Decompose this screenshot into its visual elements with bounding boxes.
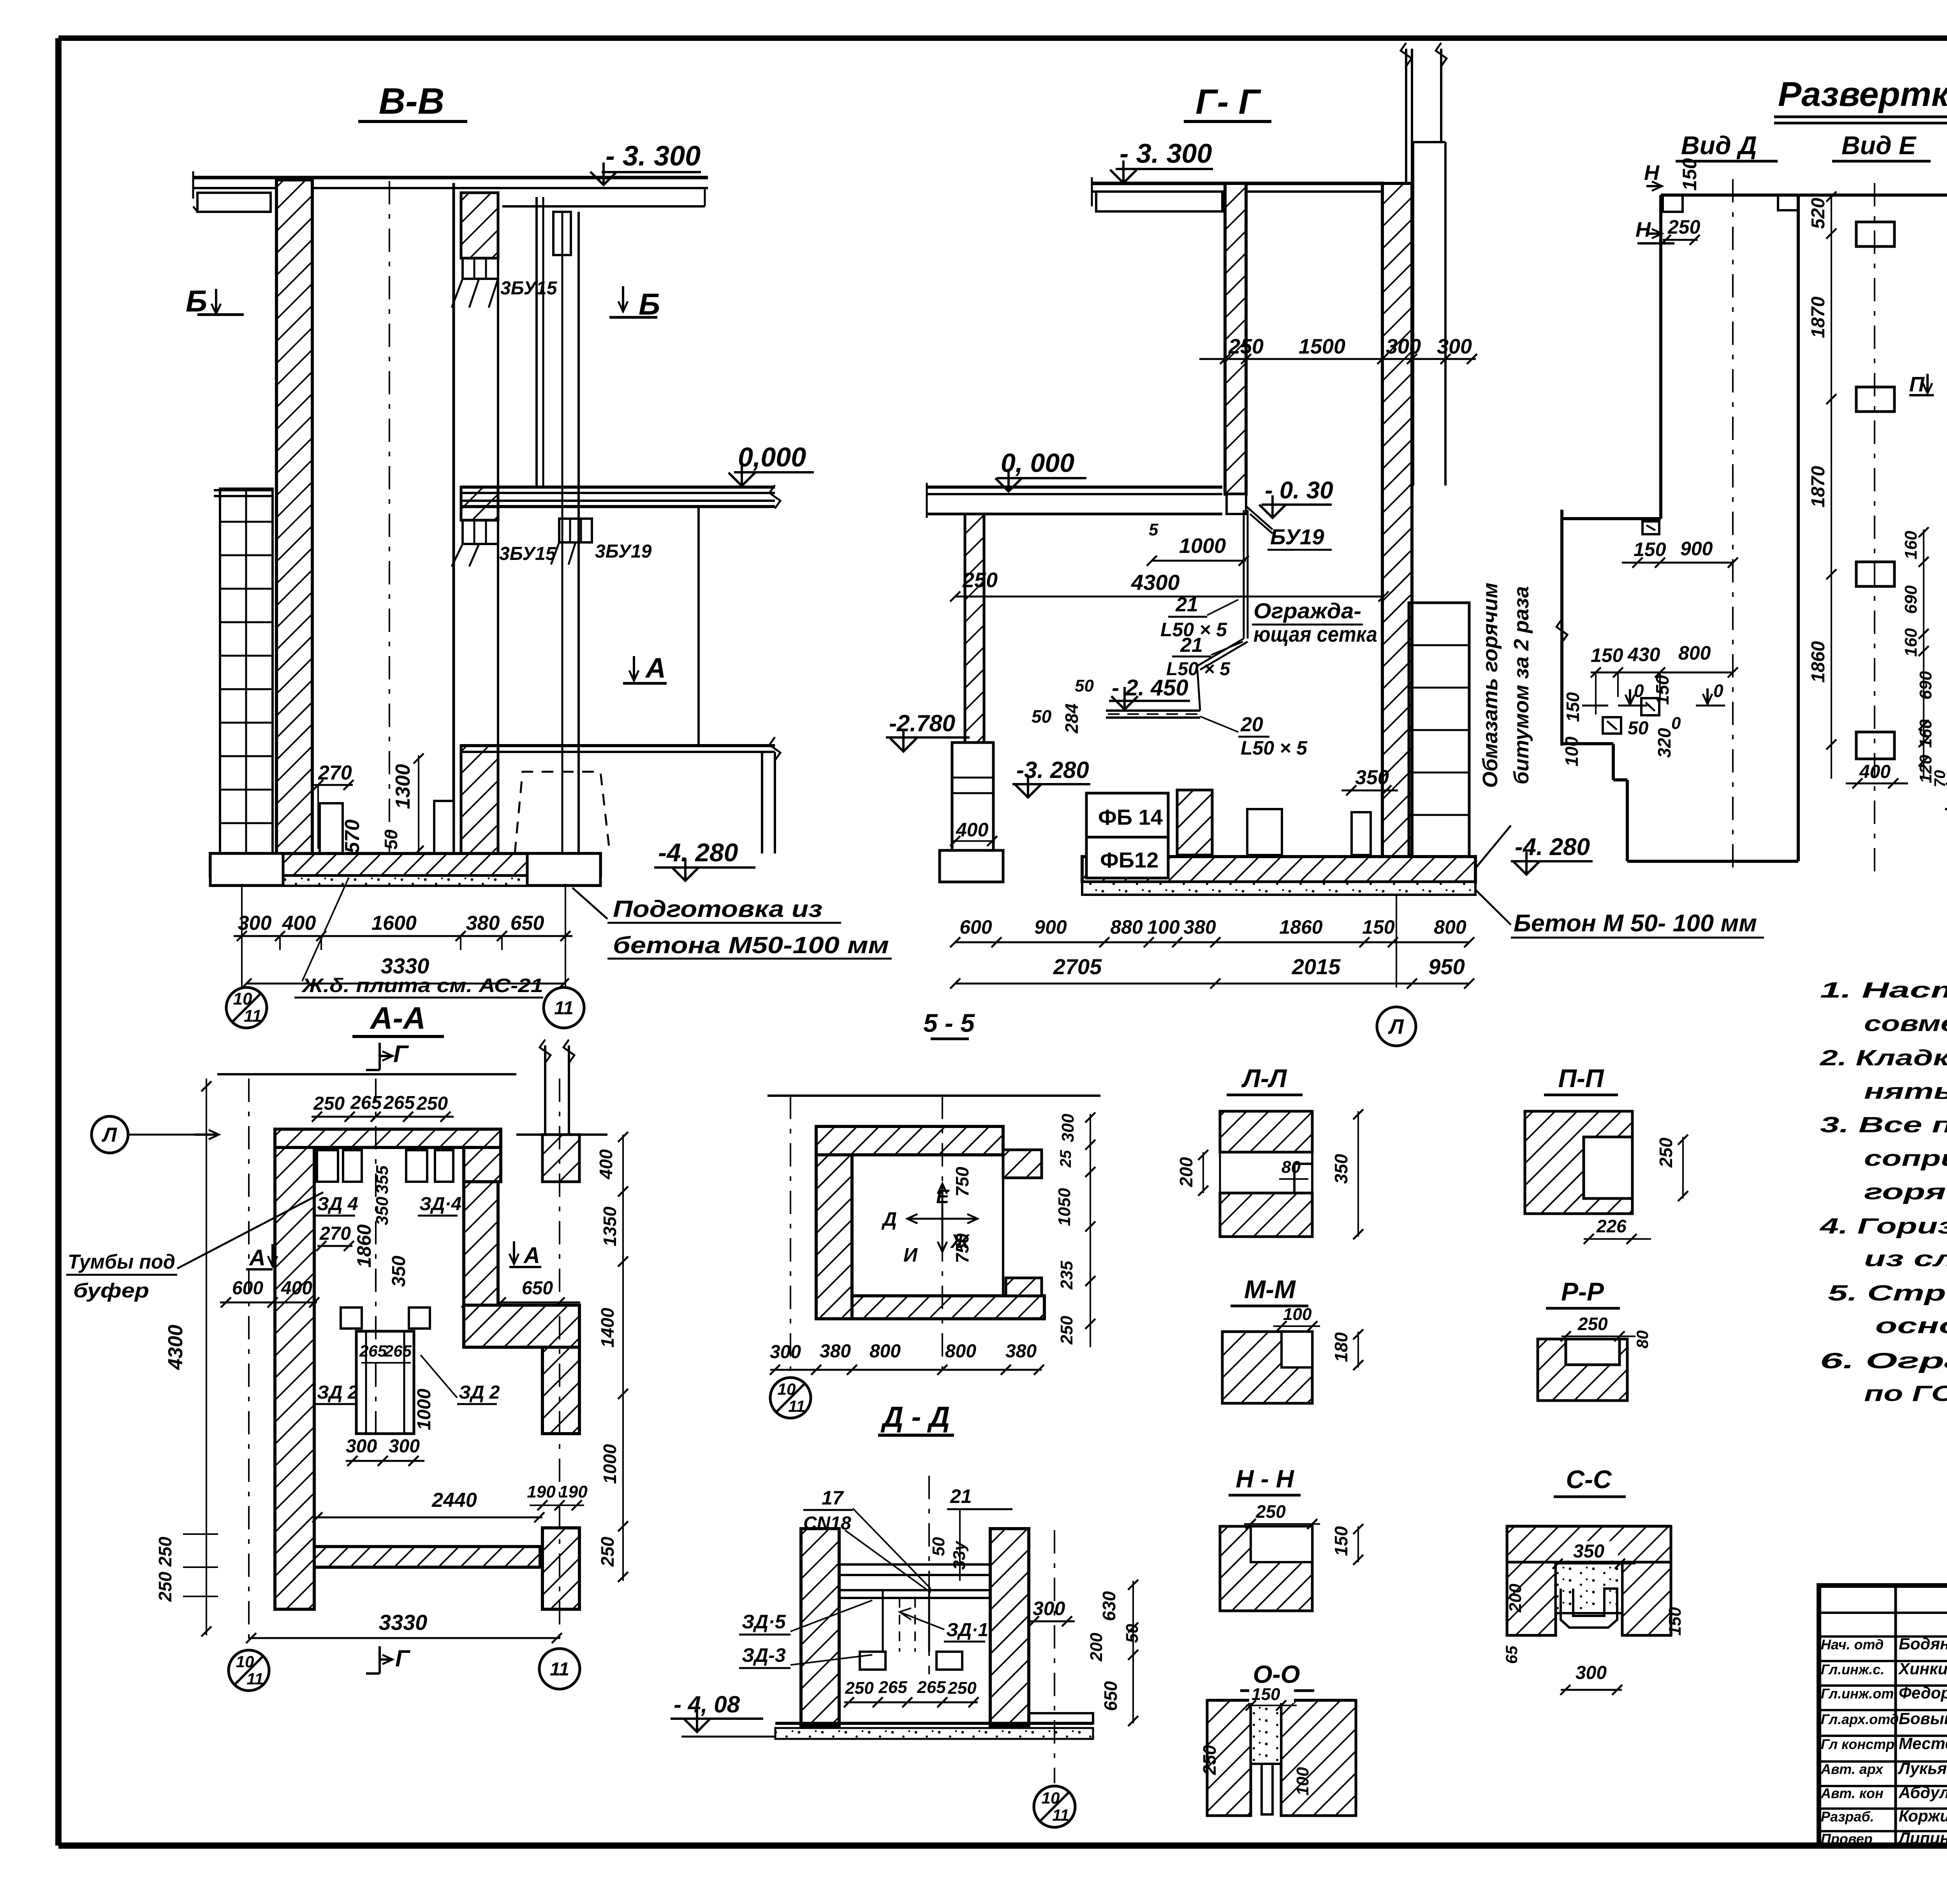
svg-text:0, 000: 0, 000 (1001, 448, 1074, 478)
svg-text:250: 250 (962, 568, 998, 592)
label ograzhdayushchaya setka (G-G) (1252, 598, 1377, 646)
plan A-A top-right wall fragment (516, 1040, 607, 1182)
svg-text:690: 690 (1916, 671, 1935, 700)
detail R-R block (1538, 1339, 1627, 1401)
svg-text:ЗД·5: ЗД·5 (742, 1611, 786, 1633)
svg-text:ЗД 2: ЗД 2 (317, 1382, 358, 1403)
dim 400 (G-G) (950, 819, 997, 846)
svg-text:265: 265 (383, 1093, 415, 1113)
plan A-A dim 2440 (312, 1489, 544, 1522)
svg-text:250: 250 (845, 1679, 874, 1698)
svg-text:1000: 1000 (414, 1388, 435, 1430)
svg-text:Хинкис: Хинкис (1898, 1659, 1947, 1678)
svg-text:380: 380 (1005, 1341, 1037, 1362)
plan A-A dims 600 400 (220, 1278, 319, 1307)
dim 1000 (G-G) (1147, 520, 1249, 566)
vid D mark N upper (1644, 161, 1662, 191)
vid D level tick 0 left (1618, 681, 1647, 706)
detail title L-L (1227, 1064, 1303, 1095)
svg-text:33у: 33у (950, 1540, 969, 1570)
section title 5-5 (923, 1008, 975, 1039)
svg-text:150: 150 (1679, 158, 1701, 191)
svg-text:160: 160 (1901, 628, 1921, 657)
svg-text:4300: 4300 (1131, 570, 1180, 595)
svg-text:Авт. кон: Авт. кон (1820, 1785, 1884, 1801)
svg-text:0: 0 (1671, 714, 1681, 733)
vid D centerline (1732, 179, 1734, 874)
svg-text:150: 150 (1331, 1526, 1351, 1556)
dim 3330 (B-B) (241, 954, 569, 989)
vid D dim line left (1582, 689, 1608, 714)
svg-text:11: 11 (788, 1397, 805, 1415)
plan A-A dims 380 650 (461, 1278, 580, 1307)
svg-text:300: 300 (1033, 1598, 1065, 1619)
svg-text:5: 5 (1149, 520, 1158, 539)
svg-text:265: 265 (384, 1342, 412, 1360)
svg-text:300: 300 (389, 1436, 420, 1457)
note zh.b. plita (B-B) (294, 878, 543, 998)
svg-text:300: 300 (770, 1342, 801, 1362)
svg-text:80: 80 (1633, 1330, 1651, 1349)
svg-text:250: 250 (1228, 335, 1264, 358)
vid E niche 1 (1856, 222, 1894, 246)
svg-text:1860: 1860 (1808, 641, 1829, 683)
svg-text:из слоя цементного раствора: из слоя цементного раствора состава 1: 2… (1864, 1246, 1947, 1271)
vid D level tick 0 right (1696, 681, 1725, 706)
svg-text:М-М: М-М (1244, 1275, 1296, 1304)
plan A-A right dim chain rotated (596, 1132, 628, 1582)
svg-text:265: 265 (917, 1678, 946, 1697)
foundation block FB14 (G-G) (1086, 793, 1168, 837)
detail D-D pad left (860, 1652, 885, 1670)
plan A-A dim 4300 rotated (164, 1079, 211, 1637)
plan A-A top wall (275, 1129, 501, 1147)
svg-text:Бовыкина: Бовыкина (1899, 1709, 1947, 1728)
svg-text:5. Строительная часть разра: 5. Строительная часть разработана на (1828, 1281, 1947, 1306)
svg-text:ющая сетка: ющая сетка (1253, 622, 1377, 646)
svg-text:- 3. 300: - 3. 300 (606, 141, 701, 172)
svg-text:284: 284 (1062, 704, 1082, 734)
svg-text:соприкасающиеся с грунтом, о: соприкасающиеся с грунтом, обмазать (1864, 1146, 1947, 1171)
svg-text:300: 300 (1058, 1114, 1077, 1142)
dim row bottom 1 (G-G) (950, 916, 1474, 947)
svg-text:БУ19: БУ19 (1270, 524, 1324, 549)
detail D-D left wall (801, 1529, 839, 1726)
grid bubble L (G-G) (1377, 895, 1416, 1046)
svg-text:350: 350 (1355, 766, 1389, 789)
svg-text:350: 350 (389, 1256, 409, 1287)
plan 5-5 dims 750 750 rotated (952, 1167, 972, 1263)
svg-text:битумом за 2 раза: битумом за 2 раза (1510, 586, 1533, 784)
vid D top-left notch (1663, 195, 1683, 212)
svg-text:С-С: С-С (1566, 1465, 1612, 1494)
top floor slab (B-B) (193, 171, 708, 212)
svg-text:-4. 280: -4. 280 (658, 838, 738, 867)
svg-text:160: 160 (1916, 719, 1935, 748)
svg-text:430: 430 (1627, 644, 1660, 665)
svg-text:А: А (645, 653, 666, 684)
left brick column (B-B) (214, 489, 273, 853)
detail C-C dim 300 (1560, 1663, 1622, 1695)
right wall hatched mid (B-B) (461, 487, 498, 520)
left column below (G-G) (940, 743, 1003, 882)
label 21 L50x5 first (G-G) (1160, 593, 1238, 641)
svg-text:20: 20 (1240, 713, 1263, 736)
detail D-D grid bubble 10/11 (1034, 1786, 1075, 1827)
svg-text:150: 150 (1665, 1607, 1685, 1636)
vid E centerline (1874, 183, 1875, 872)
pit pedestal 2 (G-G) (1352, 812, 1371, 855)
svg-text:О-О: О-О (1253, 1660, 1300, 1688)
svg-text:800: 800 (1678, 642, 1711, 664)
svg-text:Н: Н (1644, 161, 1660, 185)
plan A-A niche top 1 (317, 1150, 338, 1182)
svg-text:Бодянский: Бодянский (1899, 1635, 1947, 1653)
svg-text:Гл.инж.от.: Гл.инж.от. (1821, 1686, 1898, 1702)
svg-text:250: 250 (1577, 1314, 1608, 1334)
right wall below lower slab (B-B) (762, 752, 775, 853)
svg-text:2440: 2440 (431, 1489, 477, 1512)
svg-text:Л: Л (101, 1124, 117, 1146)
svg-text:Разраб.: Разраб. (1821, 1809, 1874, 1825)
svg-text:300: 300 (1576, 1663, 1607, 1683)
detail P-P dim 250 rotated (1656, 1135, 1688, 1201)
svg-text:Обмазать горячим: Обмазать горячим (1479, 582, 1502, 788)
svg-text:200: 200 (1087, 1633, 1106, 1662)
svg-text:1000: 1000 (600, 1444, 620, 1484)
detail P-P block (1525, 1111, 1632, 1214)
lower floor slab (B-B) (461, 737, 780, 760)
detail C-C channel (1561, 1589, 1617, 1628)
plan A-A niche top 3 (406, 1150, 427, 1182)
svg-text:6. Ограждающая сетка принят: 6. Ограждающая сетка принята тканая (1820, 1348, 1947, 1373)
svg-text:3. Все поверхности кирпичны: 3. Все поверхности кирпичных стен приямк… (1820, 1112, 1947, 1137)
label 20 L50x5 (G-G) (1200, 713, 1308, 759)
svg-text:250: 250 (1656, 1137, 1676, 1168)
svg-text:И: И (903, 1244, 918, 1266)
svg-text:21: 21 (1175, 593, 1198, 616)
svg-text:Огражда-: Огражда- (1253, 598, 1361, 623)
plan A-A dims 300 300 (346, 1436, 424, 1466)
svg-text:11: 11 (244, 1007, 262, 1026)
plan 5-5 grid bubble 10/11 (770, 1378, 811, 1418)
right wall hatched bottom (B-B) (461, 746, 498, 855)
vid E left dim chain (1808, 192, 1836, 779)
svg-text:Вид Д: Вид Д (1681, 131, 1757, 160)
svg-text:А: А (248, 1245, 266, 1271)
detail title P-P (1544, 1064, 1618, 1095)
plan 5-5 inner outline (852, 1155, 1003, 1296)
svg-text:100: 100 (1147, 916, 1180, 938)
level mark 0,000 (B-B) (729, 442, 814, 486)
svg-text:50: 50 (1032, 706, 1052, 727)
detail L-L step lines (1220, 1111, 1312, 1237)
svg-text:150: 150 (1591, 644, 1623, 666)
svg-text:800: 800 (1434, 916, 1466, 938)
svg-text:300: 300 (1437, 335, 1472, 358)
svg-text:1400: 1400 (597, 1307, 618, 1348)
svg-text:380: 380 (1183, 916, 1216, 938)
plan 5-5 top wall (816, 1126, 1003, 1155)
svg-text:Д: Д (881, 1208, 897, 1230)
plan A-A dims 250 265 265 250 (312, 1093, 454, 1122)
svg-text:250: 250 (597, 1536, 618, 1567)
svg-text:ЗД 4: ЗД 4 (317, 1194, 358, 1214)
left wall below floor (G-G) (965, 514, 984, 743)
detail D-D right dim chain (1087, 1580, 1142, 1726)
level mark -2.450 (G-G) (1109, 675, 1190, 709)
dim 270 (B-B) (313, 762, 354, 849)
plan 5-5 right dim chain (1055, 1112, 1095, 1347)
svg-text:950: 950 (1428, 954, 1465, 979)
top floor slab (G-G) (1092, 177, 1384, 211)
svg-text:Бетон М 50- 100 мм: Бетон М 50- 100 мм (1514, 910, 1757, 937)
signature rows text (1820, 1635, 1947, 1847)
svg-text:150: 150 (1634, 538, 1666, 560)
svg-text:900: 900 (1034, 916, 1067, 938)
svg-text:буфер: буфер (73, 1279, 149, 1302)
detail title C-C (1554, 1465, 1626, 1497)
detail D-D level -4.08 (671, 1691, 775, 1737)
svg-text:Н - Н: Н - Н (1236, 1465, 1294, 1493)
pit buffer pedestal 1 (B-B) (320, 803, 343, 853)
svg-text:1350: 1350 (600, 1206, 620, 1246)
vid D dim 150 430 800 (1591, 642, 1738, 701)
subtitle vid D (1676, 131, 1778, 161)
svg-text:- 4, 08: - 4, 08 (674, 1691, 740, 1717)
detail D-D centerline (928, 1476, 930, 1674)
svg-text:65: 65 (1502, 1645, 1521, 1664)
level mark -0.30 (G-G) (1259, 477, 1333, 518)
plan A-A buffer pad 2 (409, 1307, 430, 1329)
plan A-A grid bubble L (92, 1116, 219, 1153)
plan A-A grid line 10/11 (248, 1079, 250, 1644)
plan 5-5 top right block (1003, 1150, 1042, 1178)
plan A-A grid line 11 (559, 1079, 560, 1642)
detail M-M block (1222, 1332, 1312, 1403)
level mark -4.280 (B-B) (654, 838, 755, 881)
svg-text:Л: Л (1387, 1015, 1404, 1038)
svg-text:1870: 1870 (1808, 296, 1829, 338)
detail O-O block (1207, 1700, 1356, 1816)
svg-text:150: 150 (1652, 675, 1672, 705)
svg-text:400: 400 (281, 1278, 312, 1299)
svg-text:900: 900 (1680, 538, 1713, 560)
plan A-A bottom right wall (542, 1528, 579, 1609)
svg-text:226: 226 (1596, 1216, 1627, 1236)
vid D dim 250 (1661, 216, 1701, 245)
svg-text:по ГОСТ 12184- 66 * N12-1.: по ГОСТ 12184- 66 * N12-1. 2 площадь- 3,… (1864, 1381, 1947, 1406)
svg-text:250: 250 (947, 1679, 977, 1698)
protective mesh (G-G) (1196, 510, 1248, 670)
svg-text:11: 11 (554, 998, 574, 1019)
detail D-D label ZD-5 (739, 1600, 872, 1635)
svg-text:750: 750 (952, 1233, 972, 1263)
title block signature table (1819, 1585, 1947, 1846)
detail M-M dim 100 (1273, 1305, 1320, 1331)
section title A-A (352, 1001, 444, 1036)
svg-text:Лукьянов: Лукьянов (1898, 1759, 1947, 1777)
dim 4300 (G-G) (950, 570, 1389, 602)
vid D dim 150 900 (1622, 538, 1738, 568)
svg-text:ЗД·1: ЗД·1 (946, 1620, 988, 1640)
foundation block FB12 (G-G) (1086, 837, 1168, 878)
plan 5-5 centerline (942, 1096, 943, 1370)
detail title R-R (1546, 1277, 1620, 1308)
section title B-B (358, 81, 467, 122)
svg-text:совместно с листом АС-21.: совместно с листом АС-21. (1864, 1011, 1947, 1036)
svg-text:355: 355 (373, 1165, 392, 1194)
svg-text:10: 10 (236, 1652, 254, 1671)
svg-text:400: 400 (596, 1149, 616, 1179)
svg-text:1870: 1870 (1808, 466, 1829, 507)
label BU19 (G-G) (1267, 524, 1332, 550)
detail title N-N (1229, 1465, 1301, 1495)
svg-text:Местецкий: Местецкий (1899, 1734, 1947, 1753)
chimney walls above slab (G-G) (1401, 43, 1447, 183)
level mark -2.780 (G-G) (886, 710, 970, 751)
plan A-A left wall (275, 1147, 314, 1609)
svg-text:400: 400 (1859, 762, 1891, 782)
svg-text:600: 600 (959, 916, 992, 938)
detail D-D label 17 CN18 (803, 1487, 931, 1593)
right niche verticals (B-B) (537, 197, 579, 855)
detail C-C block (1507, 1526, 1671, 1635)
svg-text:- 2. 450: - 2. 450 (1112, 675, 1188, 700)
svg-text:2705: 2705 (1053, 954, 1102, 979)
note tumby pod bufer (66, 1192, 323, 1302)
svg-text:380: 380 (466, 912, 500, 934)
vid E mark P (1909, 373, 1934, 396)
vid D anchor square top (1642, 521, 1659, 534)
svg-text:Авт. арх: Авт. арх (1820, 1761, 1884, 1777)
detail M-M dim 180 rotated (1331, 1329, 1363, 1370)
svg-text:Л-Л: Л-Л (1241, 1064, 1287, 1093)
svg-text:А: А (523, 1243, 540, 1268)
right brick column (G-G) (1409, 603, 1469, 857)
left shaft wall (G-G) (1225, 183, 1246, 494)
detail D-D dims 50 334 rotated (929, 1537, 969, 1570)
svg-text:100: 100 (1293, 1767, 1312, 1796)
detail N-N dim 250 (1244, 1501, 1320, 1529)
svg-text:Вид Е: Вид Е (1841, 131, 1917, 160)
svg-text:Липин: Липин (1898, 1829, 1947, 1847)
svg-text:250: 250 (1199, 1745, 1220, 1775)
plan 5-5 reference line (768, 1095, 1100, 1097)
svg-text:Провер: Провер (1821, 1831, 1873, 1847)
svg-text:50: 50 (1075, 676, 1094, 695)
svg-text:Тумбы под: Тумбы под (68, 1251, 175, 1273)
detail C-C dim 350 (1553, 1541, 1635, 1569)
heading razvertka shahty s nishami (1774, 75, 1947, 123)
svg-text:3330: 3330 (379, 1610, 428, 1635)
detail D-D dim 300 (1028, 1598, 1075, 1626)
detail D-D label ZD-1 (900, 1608, 988, 1642)
plan 5-5 grid line (790, 1096, 791, 1375)
svg-text:Г: Г (393, 1041, 409, 1068)
plan 5-5 direction arrows (881, 1184, 977, 1266)
plan A-A bottom wall (314, 1547, 540, 1567)
svg-text:350: 350 (1331, 1154, 1351, 1184)
floor slab 0.000 (G-G) (927, 483, 1222, 518)
svg-text:10: 10 (778, 1380, 796, 1398)
detail D-D floor (775, 1713, 1093, 1739)
mid floor slab 0.000 (B-B) (461, 485, 780, 509)
detail D-D label ZD-3 (739, 1644, 872, 1668)
svg-text:350: 350 (1573, 1541, 1604, 1562)
plan A-A labels ZD2 (315, 1355, 500, 1404)
svg-text:880: 880 (1110, 916, 1143, 938)
BU19 insert block (G-G) (1227, 494, 1273, 533)
svg-text:650: 650 (522, 1278, 553, 1299)
svg-text:265: 265 (878, 1678, 907, 1697)
level mark -3.280 (G-G) (1012, 757, 1090, 797)
svg-text:0: 0 (1713, 681, 1723, 701)
plan A-A dims 355 350 rotated (373, 1165, 392, 1225)
svg-text:2. Кладку кирпичных стен ш: 2. Кладку кирпичных стен шахты лифта вып… (1820, 1045, 1947, 1070)
svg-text:1860: 1860 (1279, 916, 1322, 938)
dim 50 284 50 (G-G) (1032, 676, 1094, 734)
vid E niche 3 (1856, 562, 1894, 586)
pit slab left block (B-B) (210, 853, 283, 885)
vid E outline (1798, 195, 1947, 861)
svg-text:5 - 5: 5 - 5 (923, 1008, 975, 1037)
vid E dim 400 (1846, 762, 1908, 788)
plan A-A right wall middle (464, 1305, 579, 1347)
svg-text:235: 235 (1057, 1261, 1076, 1290)
vid E niche 2 (1856, 387, 1894, 412)
svg-text:50: 50 (381, 829, 401, 850)
detail D-D grid line (1054, 1530, 1055, 1783)
svg-text:-2.780: -2.780 (889, 710, 955, 736)
svg-text:180: 180 (1331, 1332, 1351, 1362)
svg-text:250: 250 (155, 1571, 175, 1602)
right shaft wall (G-G) (1382, 183, 1412, 857)
svg-text:50: 50 (929, 1537, 948, 1556)
svg-text:Подготовка из: Подготовка из (613, 896, 822, 922)
lintel bracket 3BU15 lower (B-B) (452, 520, 498, 567)
svg-text:600: 600 (232, 1278, 263, 1299)
plan A-A dim 3330 (246, 1610, 562, 1643)
left shaft wall (B-B) (276, 180, 312, 855)
plan 5-5 bottom dims (770, 1341, 1044, 1375)
plan A-A mark G bottom (366, 1645, 411, 1673)
svg-text:150: 150 (1362, 916, 1395, 938)
svg-text:Федорченко: Федорченко (1899, 1684, 1947, 1702)
svg-text:основании АТ- 5. 401 - 71.: основании АТ- 5. 401 - 71. (1875, 1313, 1947, 1338)
svg-text:100: 100 (1561, 736, 1582, 766)
svg-text:1600: 1600 (371, 912, 417, 934)
level mark 0,000 (G-G) (995, 448, 1086, 491)
detail P-P dim 226 (1584, 1216, 1651, 1244)
detail D-D rails (839, 1564, 990, 1652)
svg-text:Н: Н (1635, 218, 1651, 241)
detail L-L upper block (1220, 1111, 1312, 1152)
svg-text:Абдулин: Абдулин (1898, 1783, 1947, 1802)
svg-text:ФБ12: ФБ12 (1100, 848, 1158, 872)
svg-text:520: 520 (1808, 198, 1829, 229)
svg-text:В-В: В-В (379, 81, 445, 122)
plan A-A top wall right block (464, 1147, 501, 1182)
dim row 300 400 1600 380 650 (B-B) (234, 884, 572, 989)
pit floor slab (G-G) (1082, 857, 1475, 895)
svg-text:Р-Р: Р-Р (1561, 1277, 1604, 1306)
plan A-A buffer pad 1 (341, 1307, 362, 1329)
svg-text:250: 250 (313, 1093, 345, 1114)
detail title O-O (1240, 1660, 1314, 1691)
svg-text:10: 10 (1042, 1789, 1060, 1807)
vid Zh bottom dims 110 370 370 110 (1946, 757, 1947, 785)
